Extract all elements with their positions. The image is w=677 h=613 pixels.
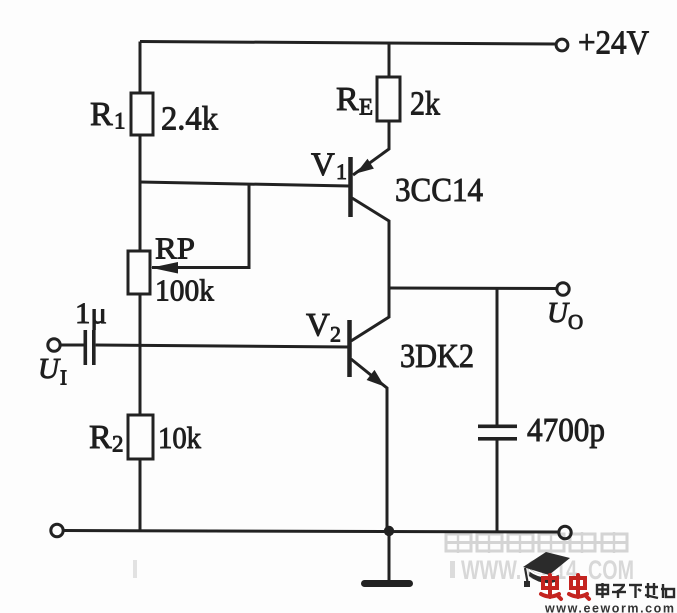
wire R1 to RP: [139, 135, 142, 252]
wire V1 base: [140, 182, 349, 186]
svg-text:www.eeworm.com: www.eeworm.com: [544, 602, 674, 613]
svg-text:RP: RP: [155, 231, 195, 266]
svg-text:3CC14: 3CC14: [395, 172, 483, 209]
terminal bottom-right: [559, 526, 571, 538]
svg-text:R: R: [89, 419, 112, 456]
ground lead: [388, 531, 391, 581]
V1 base bar: [348, 157, 353, 217]
svg-text:R: R: [336, 81, 359, 118]
svg-text:100k: 100k: [155, 273, 214, 308]
wiper wire: [152, 185, 249, 268]
ground bar: [361, 580, 413, 587]
svg-text:V: V: [311, 147, 335, 183]
svg-text:V: V: [306, 308, 330, 344]
svg-text:2k: 2k: [410, 86, 440, 123]
resistor R2: [128, 415, 153, 459]
transistor V2 (NPN 3DK2): [350, 288, 390, 531]
logo graduation cap: [523, 552, 570, 587]
svg-text:2: 2: [112, 432, 124, 457]
terminal +24V: [556, 39, 568, 51]
svg-text:2.4k: 2.4k: [161, 101, 218, 138]
transistor V1 (PNP 3CC14): [351, 121, 390, 288]
svg-text:1: 1: [114, 109, 126, 134]
V2 emitter arrow: [367, 370, 385, 387]
svg-text:3DK2: 3DK2: [400, 338, 474, 375]
svg-text:U: U: [38, 353, 61, 385]
logo text dianzi xiazaizhan: [597, 583, 674, 598]
svg-text:10k: 10k: [158, 420, 201, 455]
capacitor C2 plates: [478, 425, 517, 429]
V2 collector: [351, 288, 389, 341]
svg-text:I: I: [60, 366, 67, 390]
svg-text:U: U: [547, 297, 570, 329]
wire RP to R2: [139, 294, 142, 416]
V2 base bar: [347, 320, 352, 377]
svg-text:E: E: [359, 95, 373, 120]
wire bottom rail: [63, 531, 559, 533]
wire top rail: [140, 42, 556, 45]
terminal input: [48, 339, 60, 351]
svg-text:2: 2: [330, 322, 341, 347]
wiper arrowhead: [151, 262, 178, 274]
wire RE top: [388, 43, 391, 78]
wire cap to V2 base: [96, 345, 349, 347]
ghost watermark line 1: [446, 532, 627, 553]
resistor R1: [131, 93, 153, 135]
svg-text:1μ: 1μ: [75, 297, 107, 330]
wire output node to terminal: [389, 287, 557, 291]
capacitor C2 bottom lead: [496, 440, 499, 532]
svg-text:1: 1: [336, 159, 347, 184]
terminal UO: [557, 283, 569, 295]
junction dot: [384, 526, 394, 536]
svg-text:O: O: [568, 310, 583, 334]
capacitor C2 4700p top lead: [496, 288, 499, 425]
V1 emitter wire from RE: [353, 121, 389, 175]
V2 emitter: [351, 359, 387, 531]
V1 collector: [352, 198, 389, 288]
ghost watermark line 2: [133, 555, 634, 585]
resistor RE: [377, 77, 400, 121]
wire left vertical (top to R1): [139, 42, 142, 95]
V1 emitter arrow: [356, 159, 374, 174]
wire input to cap: [61, 344, 85, 347]
svg-text:+24V: +24V: [578, 25, 649, 62]
terminal bottom-left: [51, 524, 63, 536]
svg-text:R: R: [90, 96, 113, 133]
logo chongchong red: [541, 575, 561, 599]
wire R2 to bottom rail: [139, 459, 142, 531]
capacitor C1 1u plates: [84, 330, 88, 365]
potentiometer RP: [128, 251, 150, 294]
svg-text:4700p: 4700p: [527, 412, 605, 449]
